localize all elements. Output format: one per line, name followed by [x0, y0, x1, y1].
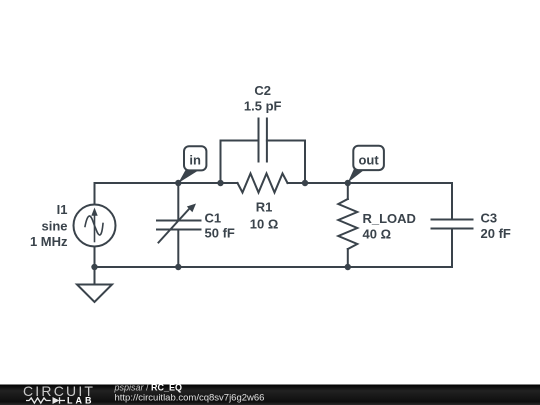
svg-text:http://circuitlab.com/cq8sv7j6: http://circuitlab.com/cq8sv7j6g2w66	[115, 393, 265, 404]
node dot R_LOAD bottom (bottom rail)	[345, 264, 351, 270]
ground symbol triangle	[77, 285, 112, 303]
capacitor C2	[259, 119, 267, 162]
svg-text:R_LOAD: R_LOAD	[363, 211, 416, 226]
source I1 sine wave	[85, 216, 103, 235]
wire bottom horizontal rail	[95, 266, 453, 268]
wire R_LOAD top lead	[347, 183, 349, 199]
node dot ground (bottom rail)	[91, 264, 97, 270]
footer logo resistor squiggle	[26, 397, 65, 403]
svg-text:out: out	[358, 153, 379, 168]
svg-text:C1: C1	[205, 211, 222, 226]
svg-text:pspisar / RC_EQ: pspisar / RC_EQ	[114, 383, 183, 393]
flag box node in	[184, 146, 206, 170]
footer bar	[0, 385, 540, 405]
svg-text:LAB: LAB	[67, 396, 95, 405]
wire C1 top lead	[177, 183, 179, 221]
resistor R1	[238, 174, 288, 193]
svg-text:in: in	[189, 153, 201, 168]
wire C3 bottom lead	[451, 229, 453, 268]
svg-text:1.5 pF: 1.5 pF	[244, 99, 282, 114]
svg-text:I1: I1	[57, 202, 68, 217]
flag tail node out	[348, 167, 366, 183]
wire R_LOAD bottom lead	[347, 249, 349, 267]
svg-text:sine: sine	[41, 219, 67, 234]
node dot C2 right (top rail)	[302, 180, 308, 186]
flag box node out	[353, 146, 384, 170]
node dot in (top rail)	[175, 180, 181, 186]
svg-text:20 fF: 20 fF	[481, 226, 511, 241]
node dot out (top rail)	[345, 180, 351, 186]
wire ground stub	[94, 267, 96, 285]
svg-text:10 Ω: 10 Ω	[250, 217, 279, 232]
wire C3 top lead	[451, 183, 453, 220]
svg-text:C2: C2	[254, 83, 271, 98]
node dot C1 bottom (bottom rail)	[175, 264, 181, 270]
wire I1 bottom lead	[94, 247, 96, 268]
svg-text:50 fF: 50 fF	[205, 226, 235, 241]
footer logo diode symbol	[53, 397, 60, 404]
wire C2 right branch	[267, 141, 305, 184]
svg-text:40 Ω: 40 Ω	[363, 227, 392, 242]
source I1 circle	[74, 205, 116, 247]
capacitor C3	[432, 220, 473, 229]
wire top-left horizontal (node in to R1 left)	[95, 182, 238, 184]
source I1 arrowhead	[91, 208, 97, 216]
wire C1 bottom lead	[177, 230, 179, 268]
svg-text:C3: C3	[481, 211, 498, 226]
wire I1 top lead	[94, 183, 96, 205]
node dot C2 left (top rail)	[217, 180, 223, 186]
svg-text:R1: R1	[256, 200, 273, 215]
capacitor C1 arrowhead	[187, 204, 196, 213]
capacitor C1 (variable)	[157, 209, 201, 243]
source I1 arrow shaft	[94, 215, 96, 242]
flag tail node in	[178, 170, 197, 184]
wire C2 left branch	[221, 141, 259, 184]
wire top-right horizontal (R1 right to C3 corner)	[288, 182, 453, 184]
resistor R_LOAD	[338, 199, 357, 249]
svg-text:1 MHz: 1 MHz	[30, 234, 68, 249]
